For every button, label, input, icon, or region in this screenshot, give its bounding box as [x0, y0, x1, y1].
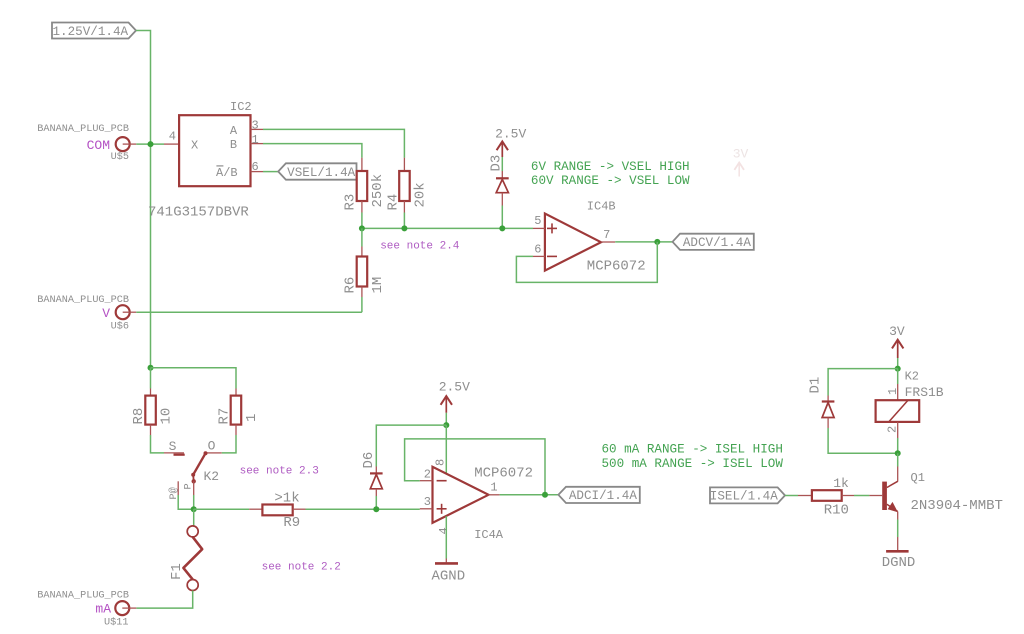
svg-text:D3: D3: [488, 155, 504, 172]
pin stub IC4B out pin7: [601, 241, 615, 243]
junction COM net: [148, 141, 154, 147]
net tag 1.25V/1.4A: [52, 23, 136, 39]
wire 2.5V to D3: [501, 157, 503, 171]
resistor R6 1M: [361, 228, 363, 246]
svg-text:1: 1: [490, 481, 497, 495]
wire D3 to bus: [501, 206, 503, 229]
svg-text:U$5: U$5: [111, 151, 129, 163]
junction R4 bus: [401, 225, 407, 231]
svg-text:BANANA_PLUG_PCB: BANANA_PLUG_PCB: [37, 591, 129, 602]
wire relay pin2 to junction: [897, 438, 899, 453]
wire IC2 A/B to VSEL tag: [263, 171, 278, 173]
svg-text:MCP6072: MCP6072: [474, 466, 533, 482]
wire V to R6: [136, 311, 362, 313]
svg-text:5: 5: [534, 214, 541, 228]
svg-text:IC4A: IC4A: [474, 528, 504, 542]
wire supply to D6: [376, 425, 446, 466]
pin stub IC4B +in pin5: [533, 227, 545, 229]
svg-text:S: S: [169, 439, 177, 454]
svg-text:see note 2.2: see note 2.2: [262, 562, 341, 574]
resistor R3 250k: [361, 158, 363, 171]
wire switch to R9: [194, 508, 250, 510]
svg-text:1M: 1M: [370, 277, 386, 294]
svg-text:U$6: U$6: [111, 321, 129, 333]
svg-text:AGND: AGND: [431, 569, 465, 585]
switch K2 lever: [204, 451, 208, 455]
svg-text:2: 2: [424, 468, 431, 482]
svg-text:COM: COM: [87, 138, 110, 153]
pin stub IC4A +in pin3: [420, 508, 433, 510]
svg-text:ADCI/1.4A: ADCI/1.4A: [569, 489, 637, 503]
net tag ADCV/1.4A: [673, 234, 754, 250]
svg-text:3V: 3V: [733, 147, 749, 162]
svg-text:B: B: [230, 138, 237, 152]
pin stub IC4A -in pin2: [420, 480, 433, 482]
svg-text:A/B: A/B: [216, 166, 238, 180]
junction IC4A out: [542, 492, 548, 498]
svg-text:500 mA RANGE -> ISEL LOW: 500 mA RANGE -> ISEL LOW: [602, 457, 784, 471]
diode D1: [827, 396, 829, 402]
svg-text:DGND: DGND: [882, 555, 916, 571]
wire R9 to IC4A pin3: [306, 508, 420, 510]
svg-text:U$11: U$11: [104, 617, 128, 629]
op-amp IC4B: [545, 214, 601, 271]
wire IC2 B to R3: [263, 144, 362, 158]
wire net 1.25V vertical main: [136, 31, 151, 368]
svg-text:ADCV/1.4A: ADCV/1.4A: [683, 236, 751, 250]
pin stub mA: [122, 607, 136, 609]
op-amp IC4A: [433, 467, 489, 523]
svg-text:BANANA_PLUG_PCB: BANANA_PLUG_PCB: [37, 295, 129, 306]
pin stub IC4A out pin1: [489, 494, 500, 496]
svg-text:741G3157DBVR: 741G3157DBVR: [148, 205, 249, 221]
svg-text:4: 4: [169, 130, 176, 144]
svg-text:BANANA_PLUG_PCB: BANANA_PLUG_PCB: [37, 124, 129, 135]
net tag ISEL/1.4A: [710, 487, 785, 503]
svg-text:6: 6: [534, 242, 541, 256]
diode D6: [375, 467, 377, 474]
wire IC4A pin4 to AGND: [445, 516, 447, 558]
net tag VSEL/1.4A: [278, 163, 356, 179]
svg-text:250k: 250k: [370, 174, 386, 208]
svg-text:V: V: [102, 306, 110, 321]
svg-text:P: P: [183, 483, 194, 489]
wire 3V junction: [897, 358, 899, 369]
svg-text:2: 2: [886, 426, 900, 433]
wire IC4A feedback: [405, 439, 545, 495]
svg-text:20k: 20k: [413, 182, 429, 207]
junction IC4B out: [654, 239, 660, 245]
wire divider bus to op-amp: [361, 213, 363, 229]
svg-text:2N3904-MMBT: 2N3904-MMBT: [911, 498, 1003, 514]
svg-text:see note 2.3: see note 2.3: [240, 466, 319, 478]
svg-text:K2: K2: [905, 370, 919, 384]
minus sign IC4B: [547, 255, 557, 257]
wire IC4A out to tag: [500, 494, 559, 496]
pin stub IC2 pin 4: [164, 143, 179, 145]
svg-text:1: 1: [244, 414, 260, 422]
resistor R7 1: [235, 389, 237, 396]
svg-text:Q1: Q1: [911, 471, 925, 485]
svg-text:60V RANGE -> VSEL LOW: 60V RANGE -> VSEL LOW: [531, 174, 690, 188]
svg-text:FRS1B: FRS1B: [905, 385, 944, 400]
svg-text:R9: R9: [283, 515, 300, 531]
wire to R8 top: [150, 368, 152, 389]
junction collector: [895, 450, 901, 456]
svg-text:R10: R10: [824, 503, 849, 519]
svg-text:3: 3: [252, 119, 259, 133]
ground AGND: [435, 562, 458, 565]
diode D3: [501, 171, 503, 178]
svg-text:1: 1: [886, 388, 900, 395]
svg-text:see note 2.4: see note 2.4: [380, 241, 460, 253]
wire COM to IC2: [136, 143, 164, 145]
ground DGND: [886, 550, 909, 553]
junction switch output: [191, 506, 197, 512]
wire IC2 A to R4: [263, 129, 404, 157]
fuse F1: [193, 509, 195, 526]
svg-text:mA: mA: [95, 602, 111, 617]
svg-text:ISEL/1.4A: ISEL/1.4A: [710, 490, 778, 504]
svg-text:2.5V: 2.5V: [439, 380, 470, 395]
svg-text:3V: 3V: [889, 324, 905, 339]
resistor R9 >1k: [249, 508, 262, 510]
junction D6: [373, 506, 379, 512]
relay K2 FRS1B coil: [897, 384, 899, 400]
svg-text:D6: D6: [361, 452, 377, 469]
wire D1 bottom to junction: [828, 428, 898, 453]
svg-text:R7: R7: [217, 408, 233, 425]
IC2 74LVC1G3157 mux body: [179, 115, 250, 186]
pin stubs IC2 right: [251, 128, 264, 130]
svg-text:1k: 1k: [833, 476, 849, 491]
svg-text:VSEL/1.4A: VSEL/1.4A: [287, 166, 355, 180]
wire ISEL to R10: [785, 495, 798, 497]
svg-text:7: 7: [603, 228, 610, 242]
svg-text:R3: R3: [343, 194, 359, 211]
svg-text:O: O: [208, 439, 216, 454]
wire supply to IC4A pin8: [445, 425, 447, 473]
wire switch pins join: [193, 495, 195, 509]
wire R8 bottom to switch S: [151, 435, 165, 453]
svg-text:F1: F1: [169, 563, 185, 580]
junction V net split: [148, 365, 154, 371]
resistor R8 10: [150, 389, 152, 396]
svg-text:IC4B: IC4B: [587, 200, 616, 214]
wire D6 to R9 line: [375, 496, 377, 509]
switch K2 contact S: [164, 452, 184, 454]
svg-text:R4: R4: [385, 194, 401, 211]
svg-text:A: A: [230, 124, 238, 138]
wire F1 to mA: [136, 591, 192, 609]
pin stub IC4B -in pin6: [533, 255, 545, 257]
wire 3V to D1: [828, 369, 898, 396]
resistor R4 20k: [403, 158, 405, 171]
svg-text:10: 10: [159, 408, 175, 425]
switch K2 pins P and P@: [193, 481, 195, 495]
junction R3 bus: [359, 225, 365, 231]
svg-text:60 mA RANGE -> ISEL HIGH: 60 mA RANGE -> ISEL HIGH: [602, 443, 783, 457]
wire R7 bottom to switch O: [222, 435, 236, 453]
junction D3 bus: [499, 225, 505, 231]
svg-text:1.25V/1.4A: 1.25V/1.4A: [53, 25, 129, 39]
svg-text:>1k: >1k: [274, 490, 299, 506]
plus sign IC4A: [437, 508, 447, 510]
svg-text:8: 8: [434, 459, 448, 466]
wire IC4B feedback: [516, 242, 657, 283]
plus sign IC4B: [547, 227, 557, 229]
svg-text:4: 4: [437, 527, 451, 534]
svg-text:K2: K2: [204, 469, 220, 484]
wire to R7 top: [151, 368, 237, 389]
pin stub V: [123, 311, 137, 313]
wire 2.5V junction: [445, 413, 447, 425]
svg-text:R6: R6: [343, 277, 359, 294]
switch K2 contact O: [207, 452, 222, 454]
svg-text:3: 3: [424, 495, 431, 509]
pin stub COM: [123, 143, 137, 145]
wire IC4B out to tag: [615, 241, 672, 243]
svg-text:MCP6072: MCP6072: [587, 259, 646, 275]
wire 3V to relay pin1: [897, 369, 899, 384]
svg-text:6V RANGE -> VSEL HIGH: 6V RANGE -> VSEL HIGH: [531, 160, 690, 174]
svg-text:1: 1: [252, 133, 259, 147]
svg-text:R8: R8: [131, 408, 147, 425]
net tag ADCI/1.4A: [558, 487, 639, 503]
svg-text:IC2: IC2: [230, 100, 252, 114]
svg-text:X: X: [191, 138, 198, 152]
resistor R10 1k: [812, 490, 842, 501]
svg-text:2.5V: 2.5V: [495, 127, 526, 142]
wire Q1 emitter to DGND: [897, 512, 899, 520]
transistor Q1 2N3904: [897, 453, 899, 466]
minus sign IC4A: [437, 480, 447, 482]
svg-text:D1: D1: [808, 377, 824, 394]
